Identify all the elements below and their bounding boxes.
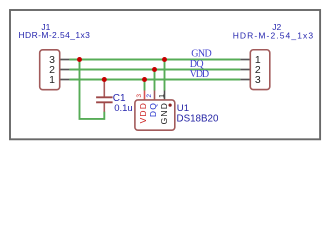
svg-text:DQ: DQ (148, 102, 158, 117)
svg-text:3: 3 (255, 74, 261, 86)
svg-text:VDD: VDD (138, 102, 148, 123)
svg-text:VDD: VDD (190, 69, 209, 80)
svg-text:1: 1 (49, 74, 55, 86)
svg-text:DS18B20: DS18B20 (177, 113, 219, 124)
svg-text:HDR-M-2.54_1x3: HDR-M-2.54_1x3 (19, 30, 91, 40)
svg-text:HDR-M-2.54_1x3: HDR-M-2.54_1x3 (233, 30, 315, 40)
svg-text:0.1u: 0.1u (114, 103, 133, 114)
svg-text:3: 3 (136, 94, 143, 98)
svg-text:2: 2 (146, 94, 153, 98)
svg-text:GND: GND (159, 102, 169, 124)
svg-text:1: 1 (157, 94, 166, 98)
